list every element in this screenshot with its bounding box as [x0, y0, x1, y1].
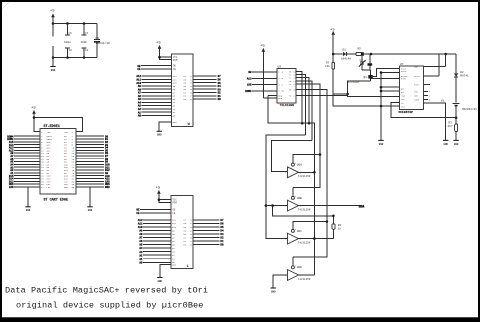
svg-text:COMP: COMP [414, 99, 420, 102]
svg-text:+5: +5 [156, 42, 161, 46]
svg-text:+5: +5 [50, 10, 55, 14]
svg-text:ROM3: ROM3 [245, 90, 252, 93]
bus wiring [265, 71, 361, 275]
svg-text:+5V: +5V [47, 131, 52, 134]
power +5 symbol top-left [50, 10, 55, 24]
buffer U6A 74LS125 [285, 162, 311, 178]
connector J1 ST cart edge: +5 arrow [31, 107, 36, 118]
ground GND5 (U4) [157, 265, 171, 283]
IC U3 left pins [136, 56, 178, 124]
svg-text:C7: C7 [85, 32, 89, 35]
svg-text:D1: D1 [343, 49, 347, 52]
buffer U6C 74LS125 [285, 228, 311, 244]
wire vcc to U4 [158, 198, 171, 202]
wire left stub with gap [52, 24, 54, 63]
battery G1 [441, 99, 477, 124]
svg-text:GND: GND [454, 143, 459, 146]
svg-text:D7: D7 [220, 219, 224, 222]
diode D1 [341, 49, 351, 61]
svg-text:R5: R5 [358, 48, 362, 51]
ground GND1 [50, 58, 55, 73]
svg-text:GND: GND [51, 69, 56, 72]
oscillator rail +5 [330, 29, 335, 55]
svg-text:GND: GND [105, 186, 110, 189]
svg-text:74LS125N: 74LS125N [298, 242, 311, 245]
svg-text:A0: A0 [138, 115, 142, 118]
ground GND4 (U3) [157, 122, 172, 137]
svg-text:C2: C2 [360, 59, 364, 62]
svg-text:D0: D0 [218, 98, 222, 101]
svg-text:GND: GND [379, 143, 384, 146]
IC U5 74LS138 body [277, 66, 296, 107]
svg-text:SDA: SDA [359, 205, 365, 209]
svg-text:PCF8573P: PCF8573P [399, 111, 414, 114]
svg-text:+5V: +5V [64, 131, 69, 134]
svg-text:C1: C1 [95, 37, 99, 40]
svg-text:GND: GND [64, 186, 69, 189]
wire vcc to connector [33, 116, 83, 131]
svg-text:FSET: FSET [414, 83, 420, 86]
svg-text:74LS125N: 74LS125N [298, 175, 311, 178]
svg-text:100uF/10: 100uF/10 [95, 41, 110, 45]
svg-text:LDS: LDS [9, 186, 14, 189]
svg-text:PFIN: PFIN [414, 75, 420, 78]
resistor R3 4k7 [448, 122, 458, 141]
svg-text:74LS125N: 74LS125N [298, 209, 311, 212]
svg-text:PGM: PGM [173, 202, 178, 205]
svg-text:G2B: G2B [278, 97, 283, 100]
svg-text:10: 10 [85, 49, 89, 52]
svg-text:RW: RW [248, 71, 252, 74]
svg-text:4k7: 4k7 [448, 124, 453, 128]
svg-text:10: 10 [69, 49, 73, 52]
svg-text:LDS: LDS [47, 186, 52, 189]
svg-text:A10: A10 [138, 226, 143, 229]
svg-text:1k: 1k [338, 227, 342, 231]
wire vcc to U3 [158, 56, 171, 60]
svg-text:CE: CE [136, 212, 140, 215]
svg-text:ST CART EDGE: ST CART EDGE [44, 199, 68, 203]
connector J1 left pins [7, 131, 52, 189]
svg-text:A5: A5 [139, 244, 143, 247]
svg-text:SDA: SDA [401, 95, 406, 98]
crystal Q1 32768Hz [347, 70, 372, 84]
svg-text:13k: 13k [325, 64, 330, 68]
svg-text:U6C: U6C [297, 230, 302, 233]
svg-text:GND: GND [158, 280, 163, 283]
svg-text:GND: GND [157, 134, 162, 137]
IC U7 PCF8573 RTC body [399, 63, 424, 114]
svg-text:+5: +5 [330, 29, 335, 33]
svg-text:SCL: SCL [401, 98, 406, 101]
capacitor C3 osc [368, 54, 373, 70]
ground GND3 (connector right) [87, 187, 92, 212]
IC U4 (L eprom): +5 symbol [156, 187, 161, 200]
svg-text:+5: +5 [260, 45, 265, 49]
svg-text:A0: A0 [139, 261, 143, 264]
svg-text:D0: D0 [220, 244, 224, 247]
svg-text:U6D: U6D [297, 266, 302, 269]
svg-text:SEC: SEC [414, 95, 419, 98]
svg-text:A1: A1 [139, 258, 143, 261]
IC U3 (W) body [172, 54, 193, 127]
svg-text:GND: GND [172, 264, 177, 267]
capacitor C7 [81, 24, 89, 58]
IC U4 right pins [184, 219, 224, 247]
svg-text:FSET: FSET [401, 78, 407, 81]
svg-text:A12: A12 [138, 219, 143, 222]
resistor R5 [356, 48, 364, 56]
svg-text:LDS: LDS [247, 84, 252, 87]
svg-text:MIN: MIN [414, 90, 419, 93]
svg-text:+5: +5 [156, 187, 161, 191]
IC U7 left pins [371, 67, 409, 108]
svg-text:A13: A13 [247, 77, 252, 80]
title text [5, 285, 208, 310]
svg-text:OSCO: OSCO [401, 70, 407, 73]
diode D2 [454, 54, 469, 103]
IC U5 left pins [245, 71, 285, 100]
connector J1 right pins [64, 131, 110, 189]
ground GND7 (battery) [453, 140, 458, 145]
connector J1 ST-EDGE1 body [40, 125, 76, 203]
ground GND9 (U6D input) [271, 275, 288, 293]
svg-text:U7: U7 [400, 63, 404, 66]
IC U3 right pins [184, 75, 222, 101]
svg-text:PGM: PGM [173, 59, 178, 62]
ground GND8 (vss right) [424, 103, 449, 146]
decoder U5: +5 symbol [260, 45, 265, 99]
svg-text:BAT41: BAT41 [460, 75, 469, 78]
IC U3 (W eprom): +5 symbol [156, 42, 161, 58]
svg-text:CR2032/3V: CR2032/3V [462, 107, 477, 111]
svg-text:CE: CE [137, 68, 141, 71]
svg-text:A3: A3 [139, 251, 143, 254]
wire rtc vbb to battery [391, 102, 458, 119]
capacitor C6 [64, 24, 72, 58]
buffer U6B 74LS125 [285, 195, 311, 211]
svg-text:Data Pacific MagicSAC+ reverse: Data Pacific MagicSAC+ reversed by tOri [5, 285, 208, 295]
svg-text:U6A: U6A [297, 164, 302, 167]
node SDA label [359, 205, 365, 209]
svg-text:VSS: VSS [401, 106, 406, 109]
svg-text:100n: 100n [81, 41, 88, 44]
IC U5 right pins and routing [289, 70, 297, 97]
svg-text:74LS138N: 74LS138N [280, 104, 295, 107]
svg-text:74LS125N: 74LS125N [298, 278, 311, 281]
wire top rail [52, 22, 97, 25]
buffer U6D 74LS125 [285, 265, 311, 281]
wire osc to rtc [333, 68, 399, 140]
svg-text:Q1: Q1 [364, 76, 368, 79]
IC U7 right pins [414, 54, 446, 102]
IC U4 left pins [136, 199, 177, 267]
wire osc rail [332, 53, 456, 56]
svg-text:GND: GND [173, 121, 178, 124]
svg-text:1N4148: 1N4148 [341, 58, 351, 61]
svg-text:VDD: VDD [414, 65, 419, 68]
svg-text:+5: +5 [31, 107, 36, 111]
ground GND2 (connector left) [25, 187, 30, 212]
svg-text:GND: GND [26, 209, 31, 212]
svg-text:C6: C6 [69, 32, 73, 35]
svg-text:GND: GND [443, 143, 448, 146]
svg-text:GND: GND [271, 290, 276, 293]
svg-text:original device supplied by µi: original device supplied by µicr0Bee [16, 301, 203, 311]
svg-text:GND: GND [88, 209, 93, 212]
resistor R7 13k [325, 54, 335, 69]
ground GND6 (RTC) [378, 105, 399, 146]
svg-text:U6B: U6B [297, 197, 302, 200]
resistor R2 1k [332, 215, 341, 239]
svg-text:D5: D5 [220, 226, 224, 229]
trimmer capacitor C2 [359, 54, 366, 70]
IC U4 (L) body [171, 195, 193, 269]
svg-text:G1: G1 [441, 99, 445, 102]
capacitor C1 100uF electrolytic [94, 24, 110, 58]
wire bottom rail [52, 56, 97, 59]
svg-text:100n: 100n [64, 41, 71, 44]
